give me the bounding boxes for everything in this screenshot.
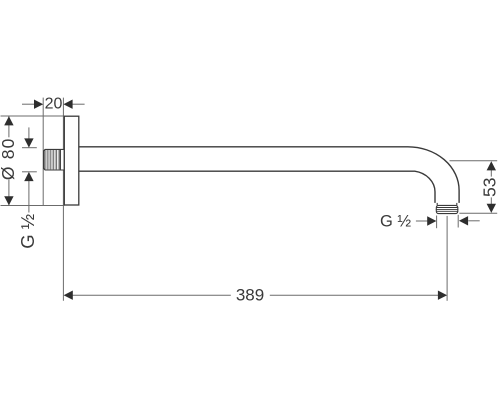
svg-text:G ½: G ½ bbox=[380, 213, 411, 231]
svg-text:53: 53 bbox=[480, 178, 500, 197]
svg-text:20: 20 bbox=[45, 95, 63, 112]
svg-text:G ½: G ½ bbox=[17, 214, 38, 249]
svg-text:389: 389 bbox=[236, 285, 264, 304]
svg-text:Ø 80: Ø 80 bbox=[0, 137, 18, 180]
